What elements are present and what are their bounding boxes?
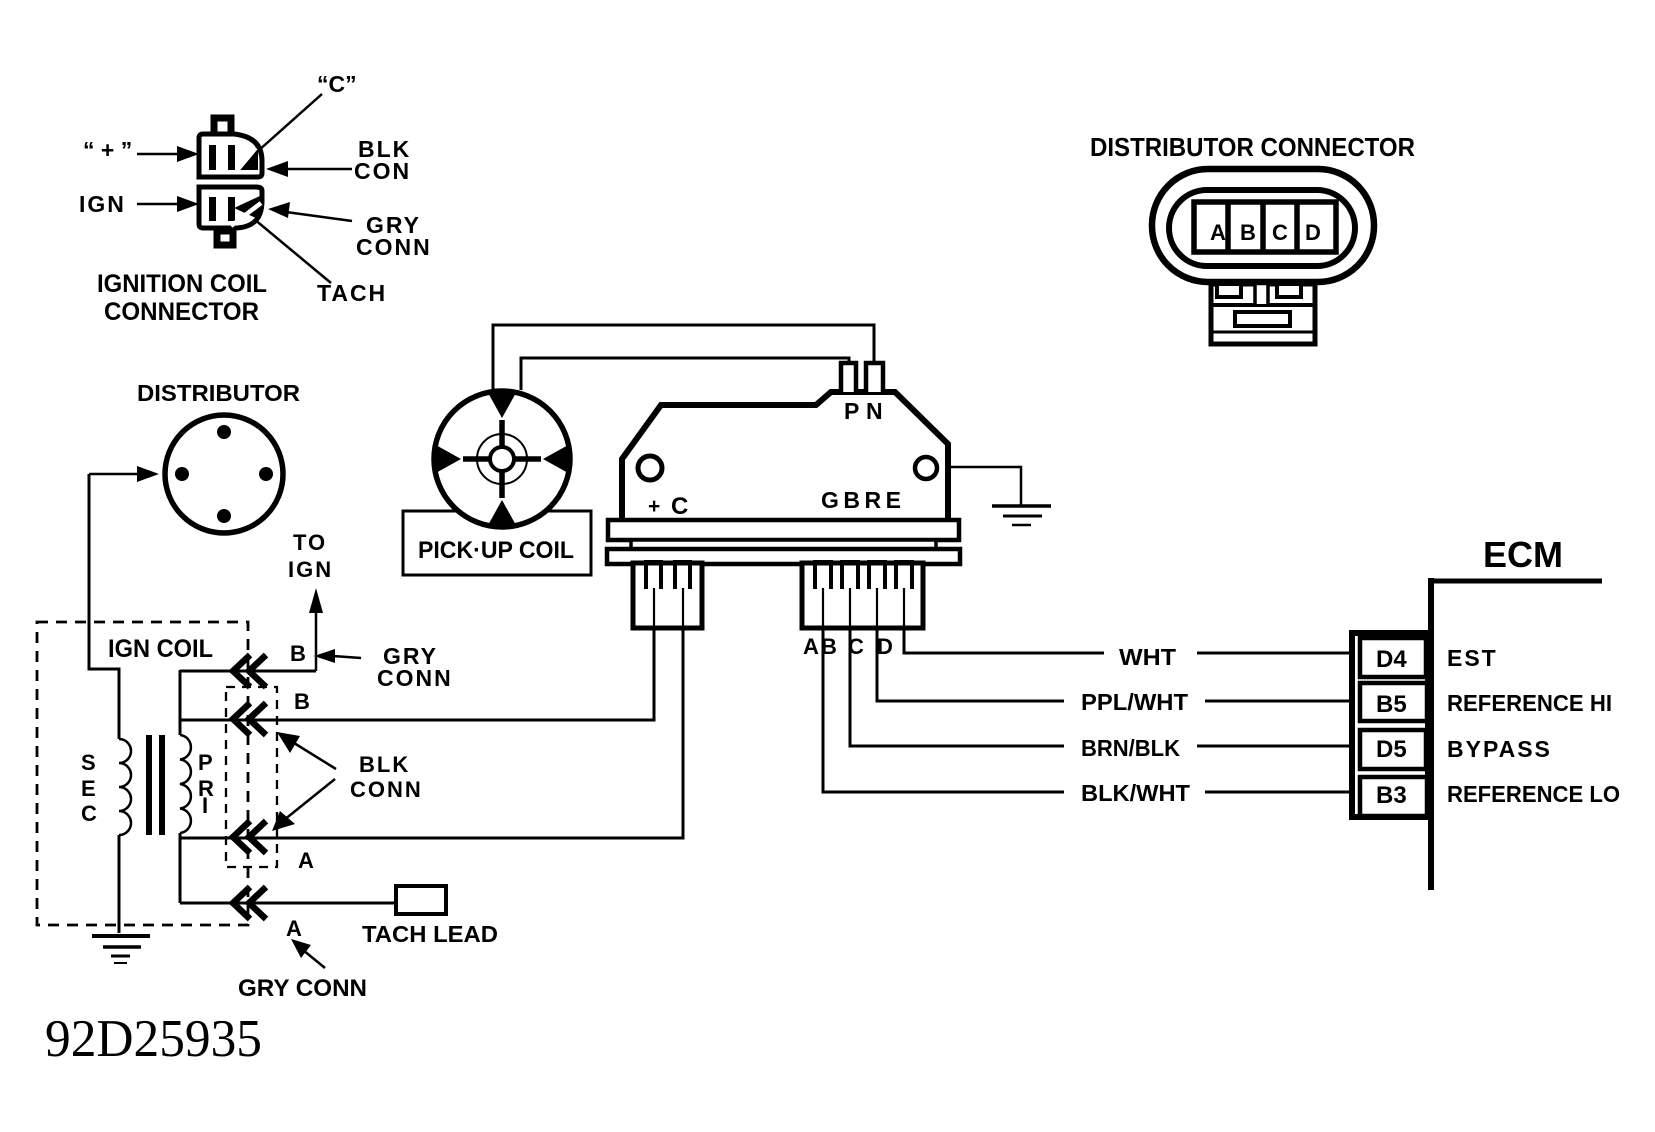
svg-text:B5: B5	[1376, 691, 1407, 718]
svg-text:EST: EST	[1447, 645, 1498, 671]
svg-text:C: C	[671, 493, 688, 520]
svg-text:DISTRIBUTOR CONNECTOR: DISTRIBUTOR CONNECTOR	[1090, 132, 1415, 162]
svg-text:B: B	[1240, 220, 1256, 245]
svg-text:GRY CONN: GRY CONN	[238, 975, 367, 1002]
svg-text:TO: TO	[293, 530, 327, 555]
svg-text:A: A	[286, 916, 302, 941]
svg-text:REFERENCE HI: REFERENCE HI	[1447, 690, 1612, 716]
svg-text:B: B	[290, 641, 306, 666]
svg-text:A: A	[1210, 220, 1226, 245]
svg-text:BRN/BLK: BRN/BLK	[1081, 735, 1180, 761]
svg-text:IGN: IGN	[79, 191, 126, 217]
svg-text:D: D	[1305, 220, 1321, 245]
svg-text:BYPASS: BYPASS	[1447, 736, 1552, 762]
svg-text:A: A	[298, 848, 314, 873]
svg-text:PPL/WHT: PPL/WHT	[1081, 689, 1188, 715]
svg-text:D: D	[877, 634, 893, 659]
svg-text:WHT: WHT	[1119, 644, 1176, 670]
svg-text:B: B	[821, 634, 837, 659]
svg-text:IGNITION COIL: IGNITION COIL	[97, 270, 267, 298]
svg-text:CON: CON	[354, 158, 411, 184]
svg-text:B: B	[294, 689, 310, 714]
svg-text:“ + ”: “ + ”	[83, 137, 132, 163]
svg-text:CONN: CONN	[377, 665, 453, 691]
svg-text:TACH: TACH	[317, 280, 387, 306]
svg-text:PICK·UP COIL: PICK·UP COIL	[418, 537, 574, 564]
svg-text:BLK/WHT: BLK/WHT	[1081, 780, 1190, 806]
svg-text:C: C	[1272, 220, 1288, 245]
svg-text:CONN: CONN	[356, 234, 432, 260]
svg-text:I: I	[202, 793, 208, 818]
svg-text:S: S	[81, 750, 96, 775]
svg-text:E: E	[81, 776, 96, 801]
svg-text:P: P	[198, 750, 213, 775]
svg-text:DISTRIBUTOR: DISTRIBUTOR	[137, 380, 300, 406]
svg-text:BLK: BLK	[359, 752, 410, 777]
svg-text:B3: B3	[1376, 782, 1407, 809]
svg-text:D5: D5	[1376, 736, 1407, 763]
svg-text:ECM: ECM	[1483, 534, 1563, 575]
svg-text:92D25935: 92D25935	[45, 1010, 262, 1068]
svg-text:+: +	[648, 495, 660, 518]
svg-text:N: N	[866, 398, 883, 424]
svg-text:C: C	[848, 634, 864, 659]
svg-text:IGN COIL: IGN COIL	[108, 635, 213, 663]
svg-text:C: C	[81, 801, 97, 826]
svg-text:CONN: CONN	[350, 777, 423, 802]
svg-text:TACH LEAD: TACH LEAD	[362, 921, 498, 947]
svg-text:P: P	[844, 398, 859, 424]
svg-text:“C”: “C”	[317, 71, 357, 97]
svg-text:REFERENCE LO: REFERENCE LO	[1447, 781, 1620, 807]
svg-text:D4: D4	[1376, 646, 1407, 673]
svg-text:A: A	[803, 634, 819, 659]
svg-text:IGN: IGN	[288, 557, 333, 582]
svg-text:CONNECTOR: CONNECTOR	[104, 298, 259, 326]
